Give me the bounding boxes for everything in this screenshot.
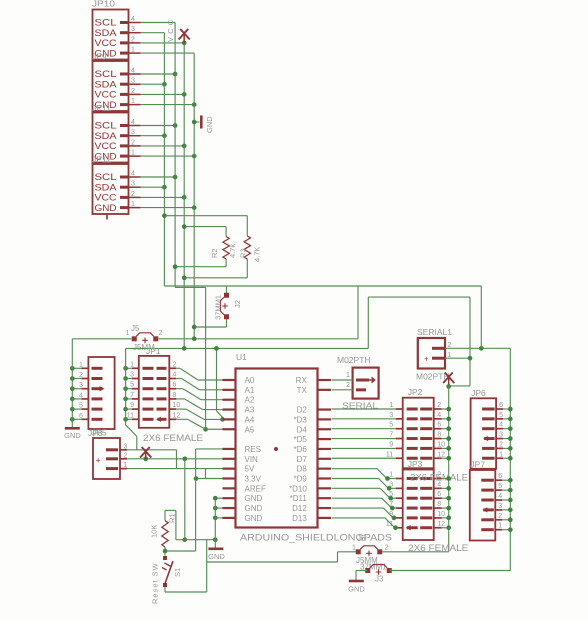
svg-text:J2: J2 [233, 300, 242, 308]
svg-text:5: 5 [498, 483, 502, 490]
svg-text:D4: D4 [297, 425, 308, 434]
svg-text:1: 1 [131, 98, 135, 105]
svg-text:JP3: JP3 [408, 459, 423, 469]
svg-text:8: 8 [173, 392, 177, 399]
svg-text:12: 12 [173, 412, 181, 419]
svg-text:1: 1 [131, 47, 135, 54]
svg-text:D13: D13 [292, 514, 307, 523]
svg-text:1: 1 [126, 330, 130, 337]
svg-text:SERIAL1: SERIAL1 [417, 327, 452, 337]
svg-text:D7: D7 [297, 455, 308, 464]
svg-text:2: 2 [498, 513, 502, 520]
svg-text:JP12: JP12 [92, 155, 112, 165]
svg-text:5V: 5V [245, 465, 255, 474]
svg-text:4: 4 [131, 171, 135, 178]
svg-text:9: 9 [130, 402, 134, 409]
svg-text:JP7: JP7 [470, 460, 485, 470]
svg-text:6: 6 [498, 473, 502, 480]
svg-text:JP6: JP6 [471, 388, 486, 398]
svg-text:+: + [424, 355, 429, 364]
svg-text:SCL: SCL [95, 18, 117, 28]
svg-text:A0: A0 [245, 376, 255, 385]
svg-text:*D3: *D3 [293, 415, 307, 424]
svg-text:*D5: *D5 [293, 435, 307, 444]
svg-text:2: 2 [173, 361, 177, 368]
svg-text:A5: A5 [245, 425, 255, 434]
svg-text:4: 4 [79, 392, 83, 399]
svg-text:SDA: SDA [95, 28, 117, 38]
svg-text:2: 2 [131, 36, 135, 43]
svg-text:6: 6 [437, 422, 441, 429]
svg-text:*D9: *D9 [293, 475, 307, 484]
svg-text:RX: RX [296, 376, 308, 385]
svg-text:4.7K: 4.7K [253, 247, 262, 262]
svg-text:J3: J3 [375, 575, 384, 584]
svg-text:4: 4 [437, 412, 441, 419]
svg-text:2: 2 [131, 139, 135, 146]
svg-text:S1: S1 [173, 568, 182, 577]
svg-text:GND: GND [245, 514, 263, 523]
svg-text:3: 3 [498, 503, 502, 510]
svg-text:3: 3 [131, 129, 135, 136]
svg-text:3: 3 [389, 412, 393, 419]
svg-text:5: 5 [389, 422, 393, 429]
svg-text:2: 2 [79, 372, 83, 379]
svg-text:1: 1 [499, 451, 503, 458]
svg-text:6: 6 [173, 382, 177, 389]
svg-text:1: 1 [79, 362, 83, 369]
svg-text:GND: GND [95, 203, 118, 213]
svg-text:AREF: AREF [245, 484, 266, 493]
svg-text:2: 2 [124, 452, 128, 459]
svg-text:R2: R2 [210, 248, 219, 258]
svg-text:SCL: SCL [95, 121, 117, 131]
svg-text:VCC: VCC [95, 193, 118, 203]
svg-text:D8: D8 [297, 465, 308, 474]
svg-text:J5: J5 [131, 324, 140, 333]
svg-text:3: 3 [130, 372, 134, 379]
svg-text:4: 4 [131, 16, 135, 23]
svg-text:1: 1 [498, 523, 502, 530]
svg-text:VCC: VCC [95, 141, 118, 151]
svg-text:10K: 10K [150, 525, 159, 538]
svg-text:RES: RES [245, 445, 261, 454]
svg-text:4: 4 [131, 68, 135, 75]
svg-text:2: 2 [131, 88, 135, 95]
svg-text:VCC: VCC [95, 38, 118, 48]
svg-text:4.7k: 4.7k [228, 244, 237, 258]
svg-text:SDA: SDA [95, 131, 117, 141]
svg-text:GND: GND [205, 116, 214, 133]
svg-text:7: 7 [130, 392, 134, 399]
svg-text:37MM1: 37MM1 [214, 295, 223, 320]
svg-text:JP1: JP1 [146, 346, 161, 356]
svg-text:5: 5 [79, 403, 83, 410]
svg-text:SCL: SCL [95, 172, 117, 182]
svg-text:3: 3 [499, 432, 503, 439]
svg-text:JP11: JP11 [92, 103, 111, 113]
svg-text:4: 4 [173, 372, 177, 379]
svg-text:*D11: *D11 [290, 494, 308, 503]
svg-text:6: 6 [437, 491, 441, 498]
svg-text:SDA: SDA [95, 79, 117, 89]
svg-text:GND: GND [245, 504, 263, 513]
svg-text:11: 11 [386, 451, 393, 458]
svg-text:JP2: JP2 [408, 387, 423, 397]
svg-text:*D10: *D10 [289, 484, 307, 493]
svg-text:6: 6 [79, 413, 83, 420]
svg-text:7: 7 [389, 432, 393, 439]
svg-text:JP8: JP8 [88, 428, 103, 438]
svg-text:2: 2 [159, 330, 163, 337]
svg-text:D12: D12 [292, 504, 307, 513]
svg-text:1: 1 [352, 545, 356, 552]
svg-text:2X6 FEMALE: 2X6 FEMALE [143, 433, 203, 443]
svg-text:*D6: *D6 [293, 445, 307, 454]
svg-text:12: 12 [437, 451, 445, 458]
svg-text:+: + [96, 456, 101, 466]
svg-text:3: 3 [131, 78, 135, 85]
svg-text:1: 1 [346, 372, 350, 379]
svg-text:A2: A2 [245, 396, 255, 405]
svg-text:1: 1 [131, 201, 135, 208]
svg-text:VCC: VCC [166, 17, 175, 42]
svg-text:SDA: SDA [95, 182, 117, 192]
svg-text:GND: GND [208, 552, 225, 561]
svg-text:3.3V: 3.3V [245, 475, 262, 484]
svg-text:J6: J6 [357, 534, 366, 543]
svg-text:1: 1 [131, 150, 135, 157]
svg-text:Reset SW: Reset SW [151, 562, 160, 604]
svg-text:ARDUINO_SHIELDLONGPADS: ARDUINO_SHIELDLONGPADS [240, 533, 392, 544]
svg-text:4: 4 [499, 422, 503, 429]
svg-text:A4: A4 [245, 415, 255, 424]
svg-text:2X6 FEMALE: 2X6 FEMALE [410, 473, 468, 483]
svg-text:6: 6 [499, 402, 503, 409]
svg-text:4: 4 [498, 493, 502, 500]
svg-text:10: 10 [173, 402, 181, 409]
svg-text:1: 1 [130, 361, 134, 368]
svg-text:8: 8 [437, 432, 441, 439]
svg-text:U1: U1 [236, 352, 247, 362]
svg-text:GND: GND [348, 585, 365, 594]
svg-text:A3: A3 [245, 406, 255, 415]
svg-text:3: 3 [131, 26, 135, 33]
svg-text:11: 11 [127, 412, 134, 419]
svg-text:3: 3 [131, 181, 135, 188]
svg-text:A1: A1 [245, 386, 255, 395]
svg-text:2: 2 [499, 441, 503, 448]
svg-text:JP9: JP9 [92, 52, 107, 62]
svg-text:9: 9 [389, 441, 393, 448]
svg-text:2: 2 [437, 402, 441, 409]
svg-text:12: 12 [437, 521, 445, 528]
svg-text:5: 5 [499, 412, 503, 419]
svg-text:1: 1 [389, 472, 393, 479]
svg-text:M02PTH: M02PTH [337, 355, 371, 365]
svg-text:JP10: JP10 [92, 0, 115, 9]
svg-text:4: 4 [131, 119, 135, 126]
svg-text:D2: D2 [297, 406, 308, 415]
svg-text:2: 2 [346, 382, 350, 389]
svg-text:5: 5 [130, 382, 134, 389]
svg-text:2: 2 [131, 191, 135, 198]
svg-text:TX: TX [297, 386, 308, 395]
svg-text:GND: GND [245, 494, 263, 503]
svg-text:R1: R1 [168, 513, 177, 523]
svg-text:VIN: VIN [245, 455, 259, 464]
svg-text:1: 1 [389, 402, 393, 409]
svg-text:SCL: SCL [95, 69, 117, 79]
svg-text:10: 10 [437, 441, 445, 448]
svg-text:2: 2 [385, 545, 389, 552]
svg-text:R3: R3 [238, 248, 247, 258]
svg-text:VCC: VCC [95, 90, 118, 100]
svg-text:GND: GND [64, 431, 81, 440]
svg-text:3: 3 [79, 382, 83, 389]
svg-text:10: 10 [437, 511, 445, 518]
svg-text:8: 8 [437, 501, 441, 508]
svg-text:3: 3 [124, 443, 128, 450]
svg-text:1: 1 [124, 462, 128, 469]
